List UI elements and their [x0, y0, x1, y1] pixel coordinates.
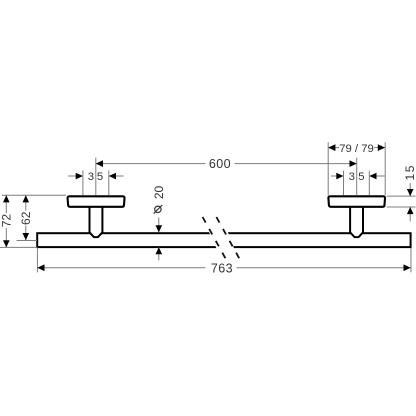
dimension 62: [19, 195, 33, 240]
dimension 35 left: [68, 171, 124, 183]
right center line: [356, 158, 358, 196]
left stem: [90, 206, 103, 238]
svg-text:62: 62: [19, 211, 33, 225]
dimension 763: [37, 262, 410, 276]
72 bottom extension / bar bottom extended: [0, 246, 37, 248]
left rosette plate: [68, 196, 125, 207]
svg-text:20: 20: [152, 186, 166, 200]
svg-text:79 / 79: 79 / 79: [339, 143, 374, 155]
svg-text:3: 3: [88, 171, 94, 183]
bar (towel rail): [37, 233, 410, 247]
dimension 15: [403, 164, 416, 221]
dimension 72: [0, 195, 13, 247]
right rosette plate: [328, 196, 385, 207]
79/79 extensions: [327, 142, 329, 195]
right stem: [350, 206, 363, 238]
diameter symbol: [155, 206, 161, 212]
763 right extension: [410, 248, 412, 272]
svg-text:5: 5: [358, 171, 364, 183]
svg-text:15: 15: [403, 164, 416, 180]
break symbol: [203, 217, 240, 259]
left center line: [95, 158, 97, 196]
svg-text:72: 72: [0, 214, 13, 228]
dimension 35 right: [331, 171, 385, 183]
15 extensions: [387, 195, 416, 197]
svg-text:3: 3: [349, 171, 355, 183]
62 bottom extension: [17, 240, 37, 242]
wall line left: [2, 194, 66, 196]
svg-text:600: 600: [209, 157, 231, 171]
svg-text:763: 763: [211, 262, 233, 276]
dimension 600: [96, 157, 357, 171]
763 left extension: [36, 248, 38, 272]
extension lines (gray): [0, 142, 416, 272]
left 35 extensions: [82, 170, 84, 195]
dimension 79 / 79: [328, 143, 385, 155]
dimension diameter 20: [152, 186, 166, 261]
svg-text:5: 5: [97, 171, 103, 183]
right 35 extensions: [343, 171, 345, 196]
